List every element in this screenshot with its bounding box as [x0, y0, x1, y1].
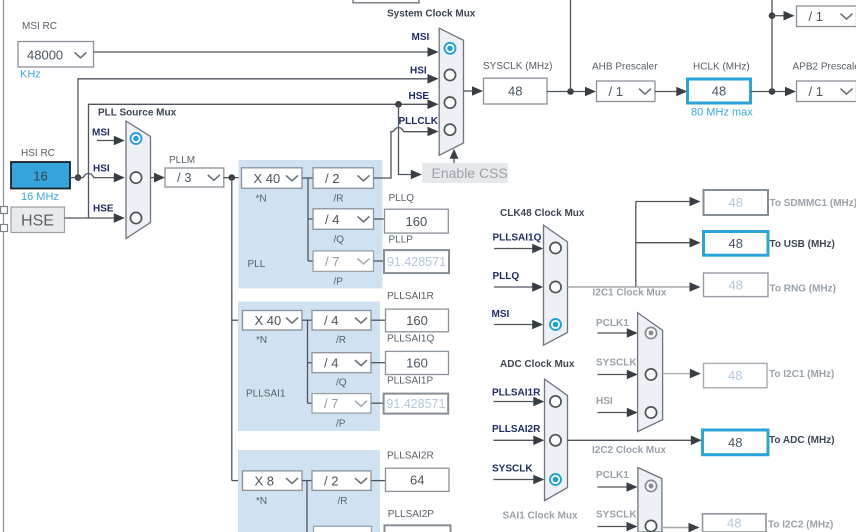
PLLSAI1 block label [246, 389, 286, 400]
APB2 Prescaler dropdown /1 [797, 81, 856, 102]
svg-text:48: 48 [729, 277, 743, 292]
ADC value box 48 highlighted [703, 430, 769, 455]
wire PLLSAI1Q stub [494, 244, 543, 254]
PLL *N label [256, 194, 267, 205]
PLL panel [239, 160, 383, 289]
I2C1 value box 48 [704, 363, 768, 387]
svg-text:PLL Source Mux: PLL Source Mux [98, 108, 177, 119]
PLLSAI1 panel [238, 302, 380, 432]
svg-text:To I2C1 (MHz): To I2C1 (MHz) [769, 369, 834, 380]
svg-text:To USB (MHz): To USB (MHz) [770, 239, 835, 250]
radio sys HSI [444, 69, 455, 80]
APB2 Prescaler label [793, 62, 856, 73]
junction SYSCLK riser [567, 88, 574, 95]
svg-text:/ 2: / 2 [324, 473, 338, 488]
svg-text:HSE: HSE [21, 213, 54, 230]
MSI RC label [22, 21, 57, 32]
To SDMMC1 label [770, 198, 856, 209]
SYSCLK value box 48 [484, 78, 548, 104]
svg-text:To I2C2 (MHz): To I2C2 (MHz) [768, 520, 833, 531]
PLLSAI1Q value box 160 [386, 351, 449, 374]
PLL /Q dropdown /4 [313, 209, 374, 230]
PLL /P label [334, 277, 344, 288]
radio clk48 MSI selected [550, 319, 561, 330]
label PLLQ input [493, 271, 520, 282]
label SYSCLK adc input [492, 464, 533, 475]
svg-text:SAI1 Clock Mux: SAI1 Clock Mux [503, 511, 578, 522]
PLLSAI1R label [387, 291, 434, 302]
wire SAI2 R out [371, 480, 385, 482]
svg-text:MSI: MSI [92, 128, 110, 139]
svg-text:ADC Clock Mux: ADC Clock Mux [500, 359, 575, 370]
radio PLL mux MSI selected [131, 133, 142, 144]
PLLSAI1 /P dropdown /7 disabled [312, 394, 371, 414]
PLLSAI1R value box 160 [386, 309, 449, 332]
svg-text:PLLSAI1: PLLSAI1 [246, 389, 286, 400]
PLLSAI2 /R label [338, 496, 348, 507]
wire SAI1 X40 to dividers [302, 319, 312, 321]
PLL /R dropdown /2 [313, 168, 374, 189]
PLLSAI2P label [388, 509, 434, 520]
svg-text:HSE: HSE [93, 204, 114, 215]
mux PLL Source Mux [126, 121, 151, 239]
To RNG label [770, 284, 836, 295]
PLLSAI2P value box clipped [385, 525, 451, 532]
svg-text:48000: 48000 [27, 48, 63, 63]
label HSI input [93, 164, 110, 175]
radio clk48 PLLSAI1Q [550, 242, 561, 253]
wire HCLK riser up [771, 0, 773, 92]
radio i2c2 PCLK1 selected grey [645, 480, 656, 491]
PLLSAI2 panel [238, 450, 380, 532]
svg-text:48: 48 [729, 236, 743, 251]
PLL Source Mux title [98, 108, 177, 119]
svg-text:/Q: /Q [334, 235, 345, 246]
radio sys PLLCLK [444, 124, 455, 135]
svg-text:PLLQ: PLLQ [493, 271, 520, 282]
wire SYSCLK riser up [570, 0, 572, 92]
ADC Clock Mux title [500, 359, 575, 370]
svg-text:PLLCLK: PLLCLK [399, 116, 439, 127]
PLLSAI2 *N dropdown X8 [243, 471, 303, 491]
svg-text:I2C1 Clock Mux: I2C1 Clock Mux [593, 288, 667, 299]
svg-text:APB2 Prescaler: APB2 Prescaler [793, 62, 856, 73]
wire HSE to PLL mux [89, 213, 125, 223]
svg-text:/R: /R [336, 335, 346, 346]
wire I2C2 mux output [662, 523, 700, 532]
HSE box [11, 207, 65, 233]
wire PLL /Q out [374, 218, 385, 220]
label HSE input [93, 204, 114, 215]
svg-text:48: 48 [728, 435, 742, 450]
svg-text:/ 1: / 1 [809, 9, 823, 24]
mux CLK48 Clock Mux [544, 225, 568, 345]
svg-text:64: 64 [410, 472, 424, 487]
svg-text:PLLSAI1R: PLLSAI1R [492, 388, 541, 399]
APB1 Prescaler dropdown /1 [797, 6, 856, 27]
PLLSAI1 /R dropdown /4 [312, 311, 371, 331]
label MSI input [92, 128, 110, 139]
svg-text:/R: /R [338, 496, 348, 507]
svg-text:HSI: HSI [596, 396, 613, 407]
svg-text:X 40: X 40 [254, 171, 281, 186]
wire SYSCLK adc stub [494, 475, 545, 485]
wire PLL divider bus [308, 178, 313, 261]
Enable CSS button [422, 163, 508, 183]
wire ADC mux output [568, 436, 702, 446]
PLLP value box 91.428571 [384, 250, 449, 273]
label PLLCLK input [399, 116, 439, 127]
wire HCLK out [751, 87, 797, 97]
svg-text:PCLK1: PCLK1 [596, 470, 629, 481]
junction APB1 tap [769, 12, 776, 19]
svg-text:160: 160 [406, 313, 428, 328]
PLLSAI1P label [387, 376, 433, 387]
wire HSE to Enable CSS [399, 104, 422, 179]
PLLP label [389, 235, 414, 246]
wire SYSCLK i2c2 stub [598, 522, 638, 532]
wire CSS arrow up [450, 149, 459, 163]
wire SAI1 P out [371, 402, 383, 404]
svg-text:I2C2 Clock Mux: I2C2 Clock Mux [592, 445, 666, 456]
KHz annotation [20, 69, 41, 81]
wire PLL mux output [151, 173, 166, 183]
label HSI i2c1 [596, 396, 613, 407]
label PLLSAI1R input [492, 388, 541, 399]
wire X40 to dividers [302, 177, 313, 179]
PLLSAI2 /P dropdown clipped [314, 526, 372, 532]
svg-text:CLK48 Clock Mux: CLK48 Clock Mux [500, 208, 585, 219]
node diagram left frame line [3, 0, 5, 532]
wire MSI stub to PLL mux [97, 136, 125, 146]
svg-text:PLLSAI2R: PLLSAI2R [387, 451, 434, 462]
svg-text:System Clock Mux: System Clock Mux [387, 9, 476, 20]
PLL /P dropdown /7 disabled [313, 251, 374, 272]
wire to RNG [636, 282, 701, 292]
svg-text:48: 48 [712, 84, 726, 99]
PLLSAI2R label [387, 451, 434, 462]
label sys HSI [410, 66, 427, 77]
svg-text:PLLSAI1Q: PLLSAI1Q [493, 233, 542, 244]
PLL /Q label [334, 235, 345, 246]
svg-text:SYSCLK: SYSCLK [596, 510, 637, 521]
svg-text:*N: *N [256, 194, 267, 205]
mux I2C1 Clock Mux [638, 313, 663, 432]
svg-text:PLLP: PLLP [389, 235, 414, 246]
radio i2c1 HSI [645, 407, 656, 418]
junction HSE-CSS [395, 101, 402, 108]
svg-text:/ 2: / 2 [325, 171, 339, 186]
HCLK label [693, 62, 750, 73]
PLLSAI2R value box 64 [386, 468, 450, 491]
svg-text:KHz: KHz [20, 69, 41, 81]
PLLSAI2 *N label [256, 496, 267, 507]
PLLSAI1P value box 91.428571 [384, 394, 449, 414]
svg-text:*N: *N [256, 335, 267, 346]
wire PCLK1 i2c2 stub [598, 482, 638, 492]
To I2C1 label [769, 369, 834, 380]
I2C1 Clock Mux title [593, 288, 667, 299]
wire to USB [636, 238, 701, 248]
junction HCLK riser [769, 88, 776, 95]
svg-text:48: 48 [508, 84, 522, 99]
svg-text:MSI: MSI [412, 32, 430, 43]
mux ADC Clock Mux [545, 379, 568, 501]
label PCLK1 i2c1 [596, 318, 629, 329]
svg-text:16: 16 [33, 169, 47, 184]
wire to SDMMC1 [636, 197, 701, 207]
RNG value box 48 [704, 273, 769, 297]
PLLSAI1 *N label [256, 335, 267, 346]
HSI RC label [21, 148, 55, 159]
svg-text:X 8: X 8 [255, 473, 275, 488]
svg-text:SYSCLK (MHz): SYSCLK (MHz) [483, 61, 552, 72]
AHB Prescaler dropdown /1 [597, 81, 656, 102]
svg-text:/P: /P [334, 277, 344, 288]
wire I2C1 mux output [663, 369, 701, 379]
wire AHB to HCLK [655, 87, 687, 97]
radio clk48 PLLQ [550, 281, 561, 292]
wire SAI1 Q out [371, 362, 385, 364]
PLLM dropdown /3 [165, 168, 224, 187]
PLLM label [169, 155, 195, 166]
clipped box above top edge [353, 0, 419, 3]
wire MSI to System Clock Mux [94, 47, 439, 57]
svg-text:To ADC (MHz): To ADC (MHz) [769, 435, 835, 446]
svg-text:91.428571: 91.428571 [387, 255, 446, 269]
SAI1 Clock Mux title [503, 511, 578, 522]
svg-text:/ 1: / 1 [809, 84, 823, 99]
label PLLSAI2R input [492, 424, 541, 435]
svg-text:/ 7: / 7 [325, 254, 339, 269]
svg-text:48: 48 [729, 195, 743, 210]
svg-text:*N: *N [256, 496, 267, 507]
PLLSAI1 /R label [336, 335, 346, 346]
svg-text:HSI RC: HSI RC [21, 148, 55, 159]
PLL /R label [334, 194, 344, 205]
svg-text:SYSCLK: SYSCLK [492, 464, 533, 475]
wire SAI2 divider bus [306, 481, 308, 532]
I2C2 Clock Mux title [592, 445, 666, 456]
PLLSAI1 /Q dropdown /4 [312, 353, 371, 373]
svg-text:16 MHz: 16 MHz [21, 191, 59, 203]
svg-text:HSI: HSI [410, 66, 427, 77]
svg-text:/ 1: / 1 [609, 84, 623, 99]
wire SYSCLK to AHB [547, 87, 596, 97]
svg-text:PLLSAI1R: PLLSAI1R [387, 291, 434, 302]
wire SYSCLK output [464, 86, 484, 96]
radio PLL mux HSE [130, 212, 141, 223]
wire PLLSAI2R stub [494, 436, 545, 446]
svg-text:48: 48 [727, 516, 741, 531]
wire CLK48 mux output [568, 286, 636, 288]
svg-text:80 MHz max: 80 MHz max [691, 107, 753, 119]
wire SYSCLK i2c1 stub [598, 370, 638, 380]
PLL *N dropdown X40 [242, 168, 303, 189]
svg-text:91.428571: 91.428571 [386, 397, 445, 411]
radio sys MSI selected [445, 43, 456, 54]
label sys HSE [409, 91, 430, 102]
radio adc SYSCLK selected [550, 474, 561, 485]
svg-text:/ 4: / 4 [325, 212, 339, 227]
AHB Prescaler label [592, 62, 658, 73]
wire HSI to PLL mux [70, 173, 125, 183]
svg-text:/ 3: / 3 [177, 170, 191, 185]
label sys MSI [412, 32, 430, 43]
svg-text:48: 48 [728, 368, 742, 383]
wire SAI1 R out [371, 319, 385, 321]
svg-text:AHB Prescaler: AHB Prescaler [592, 62, 658, 73]
svg-text:MSI RC: MSI RC [22, 21, 57, 32]
junction HSI [75, 174, 82, 181]
svg-text:PLLQ: PLLQ [389, 193, 415, 204]
wire SAI1 divider bus [308, 320, 313, 403]
wire HSI i2c1 stub [598, 408, 638, 418]
svg-text:X 40: X 40 [255, 313, 282, 328]
svg-text:To SDMMC1 (MHz): To SDMMC1 (MHz) [770, 198, 856, 209]
PLLQ label [389, 193, 415, 204]
svg-text:160: 160 [406, 356, 428, 371]
wire PLL /P out [374, 260, 384, 262]
svg-text:PLLSAI2P: PLLSAI2P [388, 509, 434, 520]
wire PLL bus vertical [232, 178, 243, 481]
16 MHz annotation [21, 191, 59, 203]
wire MSI clk48 stub [494, 320, 543, 330]
mux I2C2 Clock Mux [638, 468, 662, 532]
svg-text:160: 160 [406, 214, 428, 229]
radio i2c1 SYSCLK [645, 369, 656, 380]
HSI RC box 16 [11, 162, 70, 189]
HSE pin square OSC_OUT [1, 225, 8, 232]
radio i2c1 PCLK1 selected grey [645, 327, 656, 338]
PLLQ value box 160 [385, 209, 449, 233]
svg-text:PLLM: PLLM [169, 155, 195, 166]
USB value box 48 highlighted [704, 232, 769, 256]
label MSI clk48 input [492, 309, 510, 320]
HSE pin square OSC_IN [1, 207, 8, 214]
To USB label [770, 239, 835, 250]
mux System Clock Mux [439, 28, 463, 155]
svg-text:/R: /R [334, 194, 344, 205]
To I2C2 label [768, 520, 833, 531]
svg-text:/ 4: / 4 [324, 313, 338, 328]
svg-text:/ 7: / 7 [324, 396, 338, 411]
radio PLL mux HSI [130, 172, 141, 183]
svg-text:Enable CSS: Enable CSS [432, 165, 508, 181]
svg-text:MSI: MSI [492, 309, 510, 320]
label PLLSAI1Q input [493, 233, 542, 244]
svg-text:PCLK1: PCLK1 [596, 318, 629, 329]
svg-text:PLL: PLL [248, 259, 266, 270]
wire PLLCLK to System Clock Mux [374, 127, 439, 178]
radio adc PLLSAI1R [550, 396, 561, 407]
wire PLLM output [224, 177, 242, 179]
svg-text:HSE: HSE [409, 91, 430, 102]
System Clock Mux title [387, 9, 476, 20]
PLL block label [248, 259, 266, 270]
PLLSAI1 *N dropdown X40 [243, 311, 303, 331]
svg-text:HCLK (MHz): HCLK (MHz) [693, 62, 750, 73]
SYSCLK label [483, 61, 552, 72]
label PCLK1 i2c2 [596, 470, 629, 481]
PLLSAI2 /R dropdown /2 [312, 471, 371, 491]
CLK48 Clock Mux title [500, 208, 585, 219]
wire CLK48 bus vertical [635, 202, 637, 288]
I2C2 value box 48 [703, 514, 767, 532]
svg-text:PLLSAI2R: PLLSAI2R [492, 424, 541, 435]
junction PLLM [229, 174, 236, 181]
svg-text:/Q: /Q [336, 378, 347, 389]
svg-text:PLLSAI1Q: PLLSAI1Q [387, 334, 434, 345]
SDMMC1 value box 48 [704, 190, 769, 215]
wire SAI2 X8 to dividers [302, 480, 312, 482]
wire PLLQ stub [494, 282, 543, 292]
80 MHz max annotation [691, 107, 753, 119]
svg-text:/ 4: / 4 [324, 355, 338, 370]
svg-text:HSI: HSI [93, 164, 110, 175]
radio sys HSE [444, 97, 455, 108]
label SYSCLK i2c2 [596, 510, 637, 521]
svg-text:SYSCLK: SYSCLK [596, 358, 637, 369]
svg-text:To RNG (MHz): To RNG (MHz) [770, 284, 836, 295]
PLLSAI1Q label [387, 334, 434, 345]
To ADC label [769, 435, 835, 446]
HCLK value box 48 highlighted [688, 79, 751, 103]
radio i2c2 SYSCLK [645, 520, 656, 531]
radio adc PLLSAI2R [550, 435, 561, 446]
PLLSAI1 /P label [336, 419, 346, 430]
PLLSAI1 /Q label [336, 378, 347, 389]
wire HSE riser to System Clock Mux [65, 100, 439, 219]
wire APB1 tap [772, 11, 795, 21]
MSI RC dropdown 48000 [18, 42, 94, 68]
wire PCLK1 i2c1 stub [598, 328, 638, 338]
label SYSCLK i2c1 [596, 358, 637, 369]
svg-text:/P: /P [336, 419, 346, 430]
wire PLLSAI1R stub [494, 397, 545, 407]
svg-text:PLLSAI1P: PLLSAI1P [387, 376, 433, 387]
wire HSI vertical riser [78, 74, 439, 178]
